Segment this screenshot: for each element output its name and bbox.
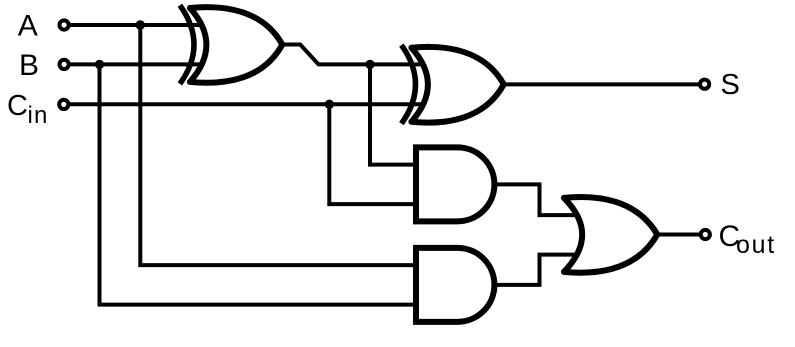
xor gate U1 extra arc [180, 5, 194, 84]
node junction XOR1 out [365, 60, 374, 69]
wire XOR1-out branch to AND1 [370, 64, 416, 164]
wire A input [69, 23, 203, 27]
node junction B [95, 60, 104, 69]
svg-text:in: in [28, 102, 49, 129]
svg-text:S: S [721, 69, 740, 101]
terminal B [60, 60, 69, 69]
wire AND1 output to OR [494, 184, 578, 215]
svg-text:A: A [18, 10, 38, 43]
xor gate U2 body [411, 47, 503, 123]
wire Cin branch to AND1 [329, 104, 416, 204]
and gate U3 [416, 147, 494, 221]
xor gate U1 body [190, 7, 282, 83]
terminal A [60, 20, 69, 29]
svg-text:B: B [19, 49, 39, 82]
wire OR output to Cout [657, 232, 700, 236]
svg-text:C: C [7, 90, 28, 122]
wire XOR1 output jog to XOR2 [282, 45, 424, 65]
and gate U4 [416, 248, 494, 322]
wire A branch to AND2 [140, 25, 416, 265]
terminal Cin [59, 100, 68, 109]
wire B branch to AND2 [100, 64, 417, 304]
wire AND2 output to OR [494, 255, 578, 285]
wire B input [69, 62, 203, 66]
xor gate U2 extra arc [401, 45, 415, 124]
svg-text:out: out [736, 231, 776, 259]
wire Cin input [69, 102, 425, 106]
wire XOR2 output to S [504, 82, 700, 86]
terminal Cout [701, 230, 710, 239]
terminal S [700, 80, 709, 89]
or gate U5 body [564, 197, 657, 273]
node junction Cin [325, 100, 334, 109]
node junction A [136, 20, 145, 29]
